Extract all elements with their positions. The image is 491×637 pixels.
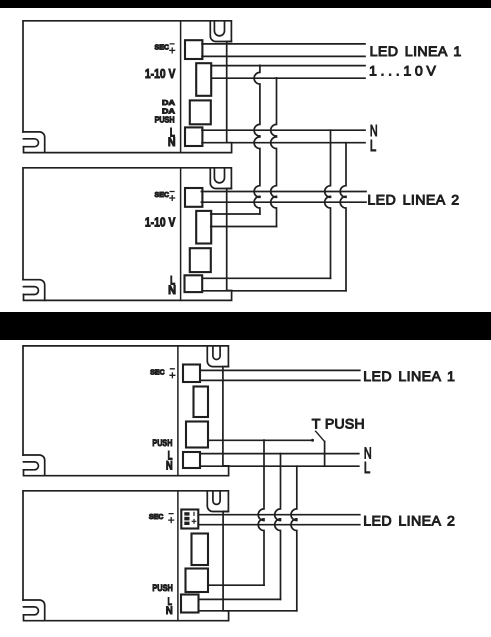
svg-text:SEC: SEC (149, 514, 164, 521)
box4 SEC terminal block (181, 510, 198, 529)
box2 SEC terminal block (185, 188, 202, 207)
driver box 3 terminal compartment divider (177, 346, 179, 476)
box1 1-10V terminal block (196, 63, 211, 96)
wire dim bus 2 from box1 1-10V (211, 77, 365, 79)
driver box 1 terminal compartment divider (180, 21, 182, 153)
box1 DA/PUSH terminal block (190, 100, 211, 124)
junction dot push feed (263, 439, 265, 441)
vertical L feed to box4 with hops (291, 466, 297, 611)
svg-text:SEC: SEC (155, 45, 170, 52)
driver box 4 terminal compartment divider (177, 491, 179, 621)
wire mains L top diagram (202, 142, 365, 144)
driver box 1 outline (23, 21, 232, 153)
wire LED2- from box2 SEC (201, 201, 366, 203)
push switch lever (316, 431, 325, 441)
svg-text:SEC: SEC (150, 369, 165, 376)
wire LED1+ from box1 SEC (202, 43, 365, 45)
driver box 1 mounting hook bottom-left (23, 132, 45, 153)
wire mains N bottom diagram (200, 453, 359, 455)
driver box 2 mounting hook bottom-left (23, 280, 45, 301)
driver box 4 mounting tab top-right (207, 491, 228, 512)
wire box4 L terminal (199, 610, 297, 612)
wire LED1- from box1 SEC (202, 55, 365, 57)
wire mains L bottom diagram (200, 465, 359, 467)
svg-text:N: N (168, 136, 176, 149)
svg-text:1-10 V: 1-10 V (145, 66, 176, 81)
box3 middle terminal block (194, 387, 209, 418)
top black bar (0, 0, 491, 8)
vertical L feed to box2 with hops (340, 143, 346, 291)
box1 label SEC with polarity (155, 44, 175, 53)
svg-text:PUSH: PUSH (152, 437, 172, 448)
box3 SEC terminal block (183, 365, 200, 383)
wire box2 dim terminal 1 (211, 213, 260, 215)
vertical N feed to box2 with hops (325, 130, 331, 278)
box3 PUSH terminal block (186, 422, 208, 448)
wire box4 PUSH terminal (208, 584, 264, 586)
svg-text:LED LINEA 1: LED LINEA 1 (370, 44, 462, 60)
junction dot dim1 (259, 64, 261, 66)
svg-text:LED LINEA 1: LED LINEA 1 (363, 369, 455, 385)
wire box2 dim terminal 2 (211, 226, 277, 228)
box3 L/N terminal block (183, 452, 200, 468)
box2 1-10V terminal block (196, 211, 211, 244)
box4 label SEC with polarity (149, 514, 174, 523)
driver box 3 mounting tab top-right (207, 346, 228, 367)
svg-text:N: N (168, 284, 176, 297)
middle black bar separator (0, 312, 491, 340)
driver box 4 mounting hook bottom-left (23, 600, 45, 621)
wire LED1- from box3 SEC (200, 379, 360, 381)
svg-text:1-10 V: 1-10 V (145, 214, 176, 229)
wire LED2+ from box2 SEC (201, 191, 366, 193)
svg-text:LED LINEA 2: LED LINEA 2 (367, 193, 459, 209)
box3 label SEC with polarity (150, 369, 175, 378)
driver box 1 mounting tab top-right (210, 21, 231, 42)
driver box 2 outline (23, 168, 232, 301)
push switch contact dot (311, 439, 314, 442)
wire LED1+ from box3 SEC (200, 369, 360, 371)
box1 L/N terminal block (185, 127, 202, 146)
vertical dim wire 2 with hops (271, 78, 277, 226)
driver box 2 terminal compartment divider (180, 168, 182, 301)
svg-text:L: L (370, 138, 377, 155)
wire PUSH from box3 (208, 439, 313, 441)
box2 label SEC with polarity (155, 192, 175, 201)
svg-text:1...10V: 1...10V (369, 63, 436, 79)
wire LED2- from box4 SEC (198, 524, 359, 526)
svg-text:L: L (364, 460, 371, 477)
box4 SEC block micro label (184, 512, 196, 525)
vertical PUSH feed to box4 with hops (258, 440, 264, 585)
vertical dim wire 1 with hops (254, 66, 260, 214)
driver box 3 outline (23, 346, 229, 476)
box4 L/N terminal block (181, 595, 199, 613)
wire dim bus 1 from box1 1-10V (211, 65, 365, 67)
wire LED2+ from box4 SEC (198, 514, 359, 516)
driver box 3 mounting hook bottom-left (23, 455, 45, 476)
svg-text:T PUSH: T PUSH (312, 417, 365, 433)
driver box 4 outline (23, 491, 229, 621)
box4 middle terminal block (192, 534, 209, 566)
vertical N feed to box4 with hops (275, 454, 281, 600)
svg-text:LED LINEA 2: LED LINEA 2 (363, 514, 455, 530)
svg-text:PUSH: PUSH (152, 582, 173, 593)
driver box 2 mounting tab top-right (210, 168, 231, 189)
box1 SEC terminal block (185, 40, 202, 59)
push switch wire to L (324, 442, 326, 467)
junction dot dim2 (275, 77, 277, 79)
wire mains N top diagram (202, 129, 365, 131)
svg-text:SEC: SEC (155, 192, 170, 199)
svg-text:N: N (166, 459, 173, 472)
box2 middle terminal block (190, 248, 211, 272)
wire box2 N terminal (202, 277, 330, 279)
box4 PUSH terminal block (186, 569, 209, 593)
svg-text:PUSH: PUSH (155, 114, 175, 124)
box2 L/N terminal block (185, 275, 203, 292)
svg-text:N: N (166, 605, 173, 617)
wire box4 N terminal (199, 598, 281, 600)
wire box2 L terminal (202, 290, 346, 292)
